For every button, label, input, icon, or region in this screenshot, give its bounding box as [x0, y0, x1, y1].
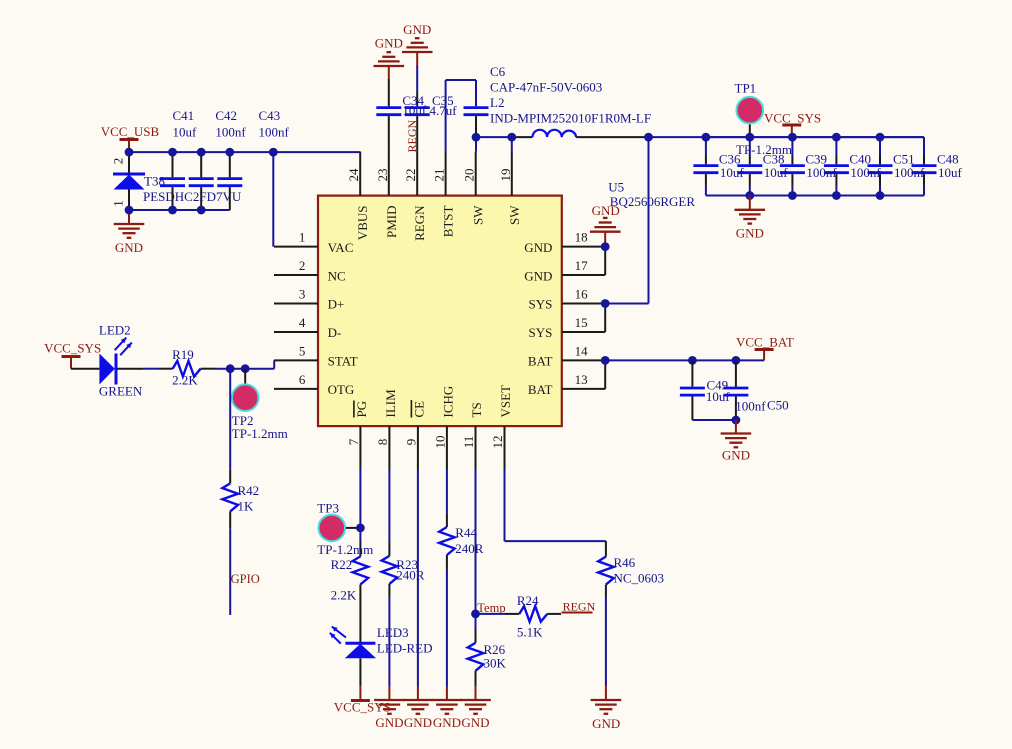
svg-text:GND: GND	[404, 715, 432, 730]
svg-text:2: 2	[299, 258, 306, 273]
svg-text:100nf: 100nf	[735, 399, 766, 414]
svg-text:10uf: 10uf	[720, 165, 745, 180]
svg-text:4.7uf: 4.7uf	[430, 103, 458, 118]
svg-text:GPIO: GPIO	[231, 572, 260, 586]
svg-text:R19: R19	[172, 347, 194, 362]
svg-text:TP3: TP3	[317, 500, 339, 515]
svg-text:22: 22	[403, 169, 418, 182]
svg-text:100nf: 100nf	[215, 125, 246, 140]
svg-text:BAT: BAT	[528, 354, 553, 369]
svg-text:CE: CE	[411, 401, 426, 418]
svg-text:100nf: 100nf	[259, 125, 290, 140]
svg-text:10uf: 10uf	[402, 103, 427, 118]
svg-text:STAT: STAT	[328, 354, 358, 369]
svg-text:REGN: REGN	[563, 600, 596, 614]
svg-text:TP1: TP1	[735, 81, 757, 96]
svg-text:LED2: LED2	[99, 322, 131, 337]
svg-text:GND: GND	[115, 240, 143, 255]
svg-text:BQ25606RGER: BQ25606RGER	[610, 194, 696, 209]
svg-text:2: 2	[110, 158, 125, 165]
svg-text:19: 19	[498, 169, 513, 182]
svg-text:BTST: BTST	[441, 205, 456, 237]
svg-text:VCC_SYS: VCC_SYS	[764, 110, 821, 125]
svg-text:R44: R44	[455, 525, 477, 540]
svg-text:12: 12	[490, 436, 505, 449]
svg-text:240R: 240R	[455, 541, 484, 556]
svg-text:VCC_SYS: VCC_SYS	[334, 699, 391, 714]
svg-text:24: 24	[346, 168, 361, 182]
svg-text:GND: GND	[592, 716, 620, 731]
svg-text:BAT: BAT	[528, 382, 553, 397]
svg-text:SYS: SYS	[529, 297, 553, 312]
svg-text:14: 14	[575, 344, 589, 359]
svg-text:TP-1.2mm: TP-1.2mm	[232, 426, 288, 441]
svg-text:PG: PG	[354, 401, 369, 418]
svg-text:L2: L2	[490, 95, 504, 110]
svg-text:GND: GND	[722, 448, 750, 463]
svg-text:U5: U5	[608, 180, 624, 195]
svg-text:R24: R24	[517, 593, 539, 608]
svg-text:NC: NC	[328, 268, 346, 283]
svg-text:10uf: 10uf	[173, 125, 198, 140]
svg-text:8: 8	[375, 439, 390, 446]
svg-text:VCC_SYS: VCC_SYS	[44, 340, 101, 355]
svg-text:PESDHC2FD7VU: PESDHC2FD7VU	[143, 189, 242, 204]
svg-text:1: 1	[299, 230, 306, 245]
svg-text:VCC_USB: VCC_USB	[101, 124, 160, 139]
svg-text:10uf: 10uf	[764, 165, 789, 180]
svg-text:SYS: SYS	[529, 325, 553, 340]
svg-text:100nf: 100nf	[894, 165, 925, 180]
svg-text:TS: TS	[469, 402, 484, 417]
svg-text:10uf: 10uf	[706, 389, 731, 404]
svg-text:REGN: REGN	[412, 205, 427, 241]
svg-text:D+: D+	[328, 297, 345, 312]
svg-text:D-: D-	[328, 325, 342, 340]
svg-text:11: 11	[461, 436, 476, 449]
svg-text:SW: SW	[507, 205, 522, 225]
svg-text:LED-RED: LED-RED	[377, 640, 433, 655]
svg-text:10: 10	[432, 436, 447, 449]
svg-text:VSET: VSET	[498, 385, 513, 418]
svg-text:GND: GND	[461, 715, 489, 730]
svg-text:GND: GND	[524, 240, 552, 255]
svg-text:Temp: Temp	[477, 601, 505, 615]
svg-text:10uf: 10uf	[938, 165, 963, 180]
svg-text:C42: C42	[215, 108, 237, 123]
svg-text:30K: 30K	[484, 656, 507, 671]
svg-text:PMID: PMID	[384, 206, 399, 239]
svg-text:2.2K: 2.2K	[331, 588, 357, 603]
svg-text:15: 15	[575, 315, 588, 330]
svg-text:CAP-47nF-50V-0603: CAP-47nF-50V-0603	[490, 80, 602, 95]
svg-text:100nf: 100nf	[850, 165, 881, 180]
svg-text:21: 21	[432, 169, 447, 182]
svg-text:OTG: OTG	[328, 382, 355, 397]
svg-text:VBUS: VBUS	[355, 206, 370, 241]
svg-text:VCC_BAT: VCC_BAT	[736, 335, 794, 350]
svg-text:GND: GND	[375, 36, 403, 51]
svg-text:18: 18	[575, 230, 588, 245]
svg-text:3: 3	[299, 287, 306, 302]
svg-text:16: 16	[575, 287, 589, 302]
svg-text:5.1K: 5.1K	[517, 625, 543, 640]
svg-text:13: 13	[575, 372, 588, 387]
svg-text:6: 6	[299, 372, 306, 387]
svg-text:LED3: LED3	[377, 625, 409, 640]
svg-text:5: 5	[299, 344, 306, 359]
svg-text:VAC: VAC	[328, 240, 354, 255]
svg-text:20: 20	[462, 169, 477, 182]
svg-text:GND: GND	[736, 226, 764, 241]
svg-text:ILIM: ILIM	[383, 389, 398, 418]
svg-text:GND: GND	[592, 203, 620, 218]
svg-text:TP-1.2mm: TP-1.2mm	[317, 542, 373, 557]
svg-text:100nf: 100nf	[806, 165, 837, 180]
svg-text:REGN: REGN	[405, 120, 419, 153]
svg-text:17: 17	[575, 258, 589, 273]
svg-text:C43: C43	[259, 108, 281, 123]
svg-text:C41: C41	[173, 108, 195, 123]
svg-text:GND: GND	[403, 22, 431, 37]
svg-text:1K: 1K	[238, 498, 255, 513]
svg-text:R46: R46	[614, 555, 636, 570]
svg-text:2.2K: 2.2K	[172, 373, 198, 388]
svg-text:R22: R22	[331, 557, 353, 572]
svg-text:GREEN: GREEN	[99, 383, 143, 398]
svg-text:ICHG: ICHG	[440, 386, 455, 418]
svg-text:TP-1.2mm: TP-1.2mm	[736, 142, 792, 157]
svg-text:C6: C6	[490, 64, 506, 79]
svg-text:240R: 240R	[396, 568, 425, 583]
svg-text:IND-MPIM252010F1R0M-LF: IND-MPIM252010F1R0M-LF	[490, 111, 651, 126]
svg-text:NC_0603: NC_0603	[614, 571, 665, 586]
svg-text:GND: GND	[433, 715, 461, 730]
svg-text:1: 1	[110, 200, 125, 207]
svg-text:23: 23	[375, 169, 390, 182]
svg-text:GND: GND	[375, 715, 403, 730]
svg-text:7: 7	[346, 438, 361, 445]
svg-text:SW: SW	[471, 205, 486, 225]
svg-text:R42: R42	[238, 483, 260, 498]
svg-text:GND: GND	[524, 268, 552, 283]
svg-text:C50: C50	[767, 398, 789, 413]
svg-text:9: 9	[403, 439, 418, 446]
svg-text:4: 4	[299, 315, 306, 330]
